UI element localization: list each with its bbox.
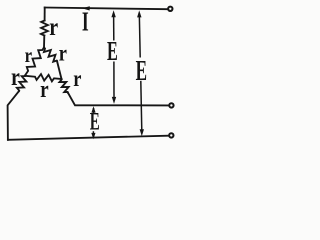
label r (center, resistor R5) — [40, 76, 49, 103]
wire R6 lead to middle wire corner — [68, 93, 168, 106]
arrowhead E1 bottom — [112, 97, 116, 104]
label E2 — [136, 56, 147, 88]
label r (right, resistor R6) — [73, 65, 81, 92]
label E3 — [90, 109, 100, 136]
arrowhead E1 top — [111, 10, 115, 17]
svg-text:E: E — [90, 109, 100, 136]
svg-text:r: r — [49, 13, 58, 41]
svg-text:r: r — [59, 39, 67, 66]
resistor R3 (r, upper-right diagonal) — [44, 48, 57, 62]
arrowhead E3 bottom — [91, 133, 95, 139]
current arrowhead I (points left on top wire) — [82, 6, 90, 10]
terminal bottom right — [169, 133, 173, 137]
terminal middle right — [169, 103, 173, 107]
resistor R5 (r, horizontal bridge) — [25, 74, 62, 81]
label I (current) — [82, 7, 89, 37]
svg-text:r: r — [11, 63, 20, 91]
wire top-left vertical lead — [44, 8, 46, 21]
terminal top right — [168, 7, 172, 11]
label r (leftmost, resistor R4) — [11, 63, 20, 91]
label r (upper-left resistor R2) — [25, 45, 33, 68]
wire bottom horizontal — [8, 136, 168, 140]
svg-text:E: E — [136, 56, 147, 88]
label r (upper-right resistor R3) — [59, 39, 67, 66]
arrowhead E3 top — [91, 106, 95, 112]
svg-text:I: I — [82, 7, 89, 37]
label E1 — [107, 36, 118, 66]
voltage arrow E2 line — [139, 13, 142, 131]
resistor R4 (r, lower-left diagonal) — [17, 76, 27, 92]
wire R3 to right node — [57, 61, 62, 79]
svg-text:E: E — [107, 36, 118, 66]
wire R4 lead to left corner — [8, 91, 19, 140]
voltage arrow E3 line (small, between middle and bottom wires) — [92, 108, 94, 136]
svg-text:r: r — [25, 45, 33, 68]
resistor R2 (r, upper-left diagonal) — [25, 48, 44, 76]
resistor R6 (r, lower-right diagonal) — [60, 79, 69, 93]
svg-text:r: r — [73, 65, 81, 92]
wire top horizontal — [45, 8, 167, 10]
arrowhead E2 top — [137, 10, 141, 17]
label r (top resistor R1) — [49, 13, 58, 41]
wire R1 bottom to apex node — [43, 36, 45, 48]
svg-text:r: r — [40, 76, 49, 103]
arrowhead E2 bottom — [140, 129, 144, 136]
resistor R1 (r, vertical top) — [41, 21, 48, 36]
voltage arrow E1 line — [113, 13, 115, 99]
